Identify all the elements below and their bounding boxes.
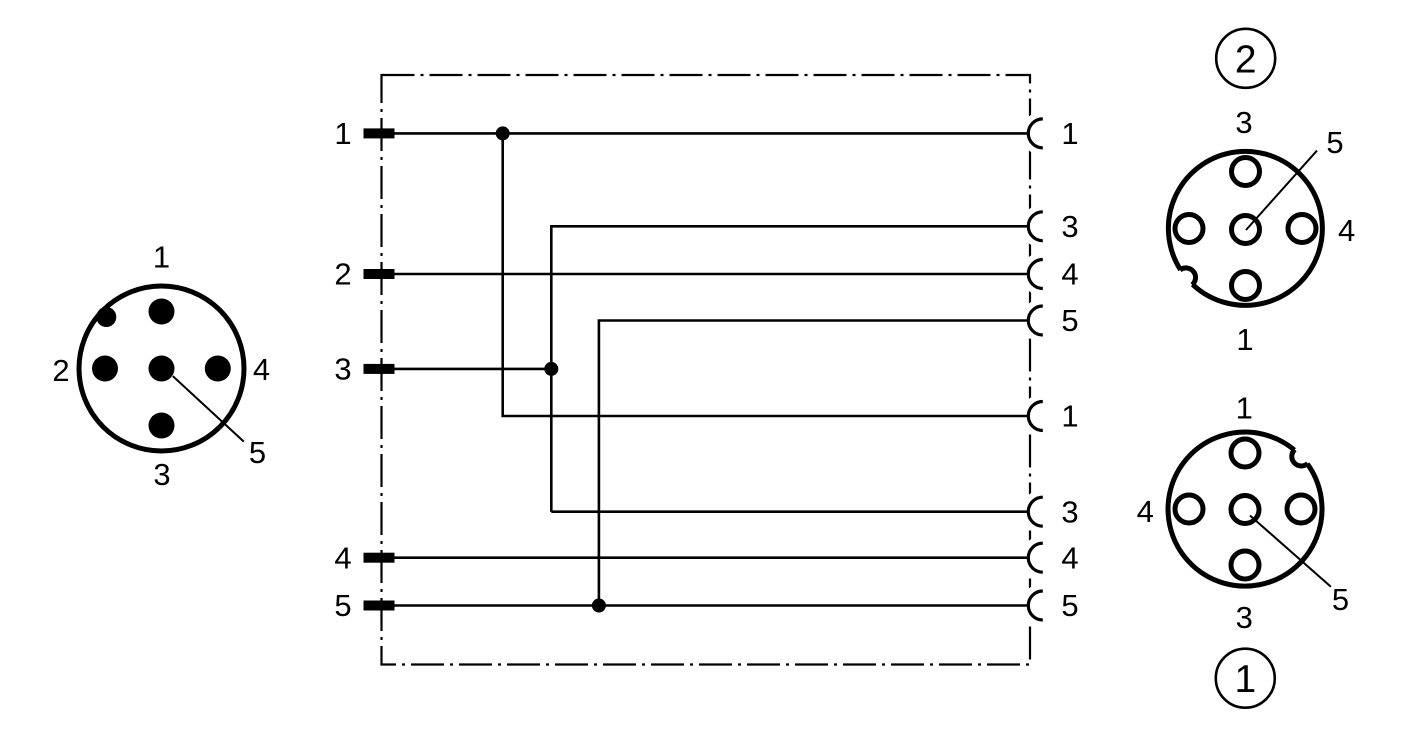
X1 pin 2 (solid)	[92, 356, 118, 382]
svg-text:1: 1	[153, 240, 170, 275]
svg-text:3: 3	[153, 457, 170, 492]
white gap masks behind socket contacts	[1021, 111, 1065, 627]
X3 key notch	[1292, 450, 1308, 466]
junction J1	[496, 126, 510, 140]
X2 pin 5 leader line	[1246, 151, 1317, 230]
X1 pin 5 (solid)	[149, 356, 175, 382]
svg-text:1: 1	[1236, 322, 1253, 357]
junction J3	[592, 599, 606, 613]
X1 pin 3 (solid)	[149, 413, 175, 439]
port number badge 1	[1216, 649, 1275, 708]
svg-text:2: 2	[52, 353, 69, 388]
X1 key notch (filled)	[96, 307, 116, 327]
wire pin2 to contact 2-4	[395, 273, 1029, 276]
svg-text:5: 5	[1332, 582, 1349, 617]
X2 pin socket 1	[1232, 272, 1260, 300]
X3 pin socket 1	[1231, 439, 1259, 467]
socket contact symbol (pin 1)	[1028, 402, 1043, 431]
svg-text:1: 1	[1236, 391, 1253, 426]
X3 pin socket 3	[1231, 551, 1259, 579]
svg-text:4: 4	[253, 352, 270, 387]
X3 pin socket 5c	[1231, 496, 1259, 524]
socket contact symbol (pin 5)	[1028, 306, 1043, 335]
X1 pin 1 (solid)	[149, 299, 175, 325]
wire pin1 to contact 2-1	[395, 132, 1029, 135]
wire pin3 to junction J2	[395, 368, 552, 371]
connector X1 (M12 male face, left) body	[79, 286, 244, 451]
box input pin 5 stub	[364, 601, 395, 611]
junction J2	[544, 362, 558, 376]
X2 pin socket 2l	[1175, 215, 1203, 243]
svg-text:1: 1	[334, 116, 351, 151]
wire branch pin3 to contact 2-3	[551, 226, 1028, 511]
svg-text:1: 1	[1061, 399, 1078, 434]
X2 key notch	[1180, 268, 1196, 285]
svg-text:1: 1	[1061, 116, 1078, 151]
X2 pin socket 5c	[1232, 216, 1260, 244]
svg-text:5: 5	[249, 435, 266, 470]
junction box enclosure (dash-dot)	[382, 75, 1031, 665]
svg-text:4: 4	[1061, 257, 1078, 292]
box input pin 3 stub	[364, 364, 395, 374]
svg-text:4: 4	[1137, 494, 1154, 529]
X1 pin 5 leader line	[173, 376, 244, 442]
socket contact symbol (pin 4)	[1028, 543, 1043, 572]
port number badge 2	[1216, 29, 1275, 88]
X2 pin socket 4	[1288, 215, 1316, 243]
socket contact symbol (pin 3)	[1028, 497, 1043, 526]
connector X2 (M12 female face, top right) body	[1168, 151, 1322, 305]
svg-text:5: 5	[1061, 303, 1078, 338]
svg-text:5: 5	[1061, 588, 1078, 623]
wire branch pin1 to contact 1-1	[503, 133, 1029, 416]
svg-text:3: 3	[1061, 494, 1078, 529]
svg-text:5: 5	[334, 588, 351, 623]
svg-text:1: 1	[1234, 658, 1256, 701]
wire pin5 to contact 1-5	[395, 604, 1029, 607]
wire branch pin5 to contact 2-5	[599, 321, 1028, 606]
socket contact symbol (pin 5)	[1028, 591, 1043, 620]
socket contact symbol (pin 1)	[1028, 119, 1043, 148]
box input pin 4 stub	[364, 553, 395, 563]
svg-text:3: 3	[1061, 209, 1078, 244]
connector X3 (M12 female face, bottom right) body	[1168, 432, 1322, 586]
X1 pin 4 (solid)	[205, 356, 231, 382]
svg-text:4: 4	[334, 540, 351, 575]
X3 pin 5 leader line	[1250, 516, 1331, 587]
svg-text:3: 3	[1235, 105, 1252, 140]
svg-text:3: 3	[1236, 600, 1253, 635]
socket contact symbol (pin 3)	[1028, 212, 1043, 241]
svg-text:3: 3	[334, 352, 351, 387]
box input pin 1 stub	[364, 128, 395, 138]
svg-text:4: 4	[1061, 540, 1078, 575]
svg-text:4: 4	[1338, 213, 1355, 248]
wire branch pin3 to contact 1-3	[551, 510, 1028, 513]
svg-text:2: 2	[334, 257, 351, 292]
socket contact symbol (pin 4)	[1028, 260, 1043, 289]
svg-text:2: 2	[1235, 38, 1257, 81]
wire pin4 to contact 1-4	[395, 556, 1029, 559]
svg-text:5: 5	[1326, 125, 1343, 160]
box input pin 2 stub	[364, 269, 395, 279]
X3 pin socket 4	[1175, 495, 1203, 523]
X3 pin socket 3r	[1287, 495, 1315, 523]
X2 pin socket 3	[1232, 158, 1260, 186]
